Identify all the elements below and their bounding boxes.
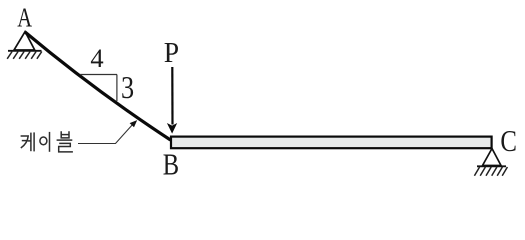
이 : ㅇ xyxy=(40,137,47,145)
블 : ㅡ xyxy=(57,139,73,141)
케 : consonant ㅋ xyxy=(21,136,29,148)
svg-text:P: P xyxy=(164,37,179,69)
leader line from label to cable xyxy=(78,123,134,144)
pin support triangle at A xyxy=(14,32,35,50)
leader arrowhead xyxy=(130,120,138,127)
beam B-C xyxy=(171,137,492,149)
케 : vowel ㅔ vertical 2 xyxy=(33,132,35,151)
hatching at C xyxy=(474,167,507,176)
ground line at C xyxy=(477,165,506,167)
svg-text:4: 4 xyxy=(90,43,103,73)
블 : ㄹ xyxy=(59,143,73,152)
force P arrowhead xyxy=(167,123,177,134)
이 : ㅣ xyxy=(49,132,51,152)
label 케이블 (drawn as strokes) xyxy=(21,131,73,152)
svg-text:B: B xyxy=(163,148,179,182)
svg-text:C: C xyxy=(500,124,517,158)
force P arrow shaft xyxy=(171,67,173,125)
케 : vowel ㅔ vertical 1 xyxy=(30,133,32,152)
블 : ㅂ xyxy=(61,131,69,138)
slope marker vertical line (rise 3) xyxy=(116,75,118,102)
slope marker horizontal line (run 4) xyxy=(80,74,117,76)
케 : vowel ㅔ tick xyxy=(28,140,31,142)
pin support triangle at C xyxy=(483,149,502,166)
svg-text:3: 3 xyxy=(121,70,134,105)
hatching at A xyxy=(7,52,42,59)
svg-text:A: A xyxy=(17,4,32,33)
ground line at A xyxy=(8,50,42,52)
cable from A to B xyxy=(25,32,171,140)
